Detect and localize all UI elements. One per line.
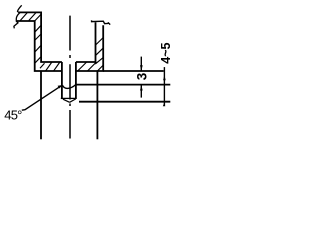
lower member left wall [40, 71, 42, 139]
dim 4~5 line [163, 67, 165, 106]
right member outline [76, 22, 103, 71]
hatch right flange [78, 62, 103, 71]
hatch right plate [95, 38, 103, 64]
right member break line [92, 20, 111, 24]
break line (left plate) [14, 5, 22, 28]
45 deg leader arrowhead [58, 85, 63, 89]
left member outline [17, 12, 62, 71]
chamfer V right [70, 99, 76, 102]
chamfer V left [63, 99, 70, 102]
centerline [69, 16, 71, 139]
extension line y101.2 [79, 101, 170, 103]
lower member right wall [96, 71, 98, 139]
extension line y71 [103, 70, 164, 72]
hole right wall [75, 62, 77, 99]
svg-text:3: 3 [135, 72, 150, 80]
svg-text:4~5: 4~5 [159, 42, 173, 63]
hole bottom seat line [61, 97, 76, 99]
grout arc in hole [62, 85, 76, 89]
hatch left flange [40, 62, 60, 71]
dim 3 top arrow [140, 57, 142, 71]
extension line y84.3 [76, 84, 170, 86]
svg-text:45°: 45° [4, 108, 22, 123]
dim 3 bottom arrow [140, 85, 142, 97]
45 deg leader [22, 86, 61, 110]
hatch left vertical plate [35, 15, 41, 64]
dim 4~5 lower arrow [163, 103, 166, 106]
hole left wall [61, 62, 63, 99]
dim 4~5 upper arrow [163, 75, 166, 80]
hatch left top plate [20, 12, 36, 20]
